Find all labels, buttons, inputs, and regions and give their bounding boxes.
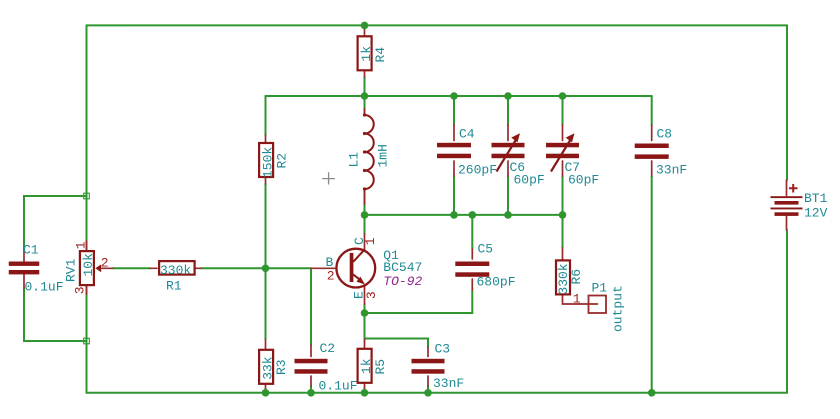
svg-text:0.1uF: 0.1uF (25, 280, 64, 295)
svg-text:33nF: 33nF (656, 163, 687, 178)
svg-text:TO-92: TO-92 (383, 274, 422, 289)
svg-text:C8: C8 (657, 127, 673, 142)
svg-text:150k: 150k (260, 147, 275, 178)
svg-text:R6: R6 (569, 269, 584, 285)
svg-text:260pF: 260pF (458, 163, 497, 178)
svg-text:R3: R3 (274, 359, 289, 375)
svg-text:1mH: 1mH (376, 144, 391, 167)
svg-text:2: 2 (101, 255, 109, 270)
svg-text:12V: 12V (804, 206, 828, 221)
svg-text:output: output (611, 285, 626, 332)
svg-text:P1: P1 (592, 280, 608, 295)
svg-text:60pF: 60pF (514, 173, 545, 188)
svg-text:L1: L1 (347, 152, 362, 168)
svg-text:1k: 1k (359, 46, 374, 62)
svg-text:60pF: 60pF (568, 173, 599, 188)
svg-text:1: 1 (573, 291, 581, 306)
svg-text:C3: C3 (435, 342, 451, 357)
svg-text:R1: R1 (166, 279, 182, 294)
svg-text:1: 1 (363, 237, 378, 245)
svg-text:RV1: RV1 (64, 258, 79, 282)
svg-text:R2: R2 (275, 153, 290, 169)
svg-text:BT1: BT1 (804, 191, 828, 206)
svg-text:2: 2 (327, 269, 335, 284)
svg-text:0.1uF: 0.1uF (319, 379, 358, 394)
svg-text:C4: C4 (459, 127, 475, 142)
svg-text:3: 3 (364, 291, 379, 299)
svg-text:10k: 10k (81, 253, 96, 277)
svg-text:R5: R5 (373, 359, 388, 375)
svg-text:680pF: 680pF (477, 275, 516, 290)
svg-text:33nF: 33nF (433, 376, 464, 391)
svg-text:R4: R4 (373, 47, 388, 63)
svg-text:C2: C2 (320, 341, 336, 356)
svg-text:C5: C5 (478, 242, 494, 257)
svg-text:3: 3 (72, 286, 87, 294)
svg-text:1k: 1k (359, 358, 374, 374)
svg-text:1: 1 (73, 241, 88, 249)
svg-text:330k: 330k (160, 263, 191, 278)
svg-text:C1: C1 (23, 243, 39, 258)
